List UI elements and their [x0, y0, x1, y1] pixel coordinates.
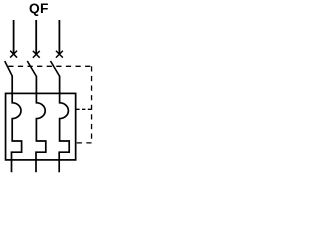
- pole 2 lower wire + magnetic coil arc + thermal zigzag element: [36, 76, 46, 172]
- pole 1 moving blade: [5, 61, 13, 76]
- pole 1 top terminal wire: [13, 20, 15, 54]
- dashed linkage right vertical: [91, 66, 93, 143]
- svg-text:QF: QF: [29, 1, 49, 16]
- pole 2 top terminal wire: [35, 20, 37, 54]
- dashed linkage bottom connector: [76, 142, 91, 144]
- mechanical linkage dashed line: [8, 65, 91, 67]
- pole 1 lower wire + magnetic coil arc + thermal zigzag element: [12, 76, 22, 172]
- pole 3 contact X: [56, 51, 63, 58]
- pole 3 top terminal wire: [58, 20, 60, 54]
- pole 3 moving blade: [51, 61, 60, 76]
- dashed trip connector to box: [76, 108, 91, 110]
- pole 2 contact X: [33, 51, 40, 58]
- trip-unit enclosure box: [6, 93, 76, 159]
- pole 2 moving blade: [27, 61, 36, 76]
- pole 3 lower wire + magnetic coil arc + thermal zigzag element: [59, 76, 69, 172]
- pole 1 contact X: [10, 51, 17, 58]
